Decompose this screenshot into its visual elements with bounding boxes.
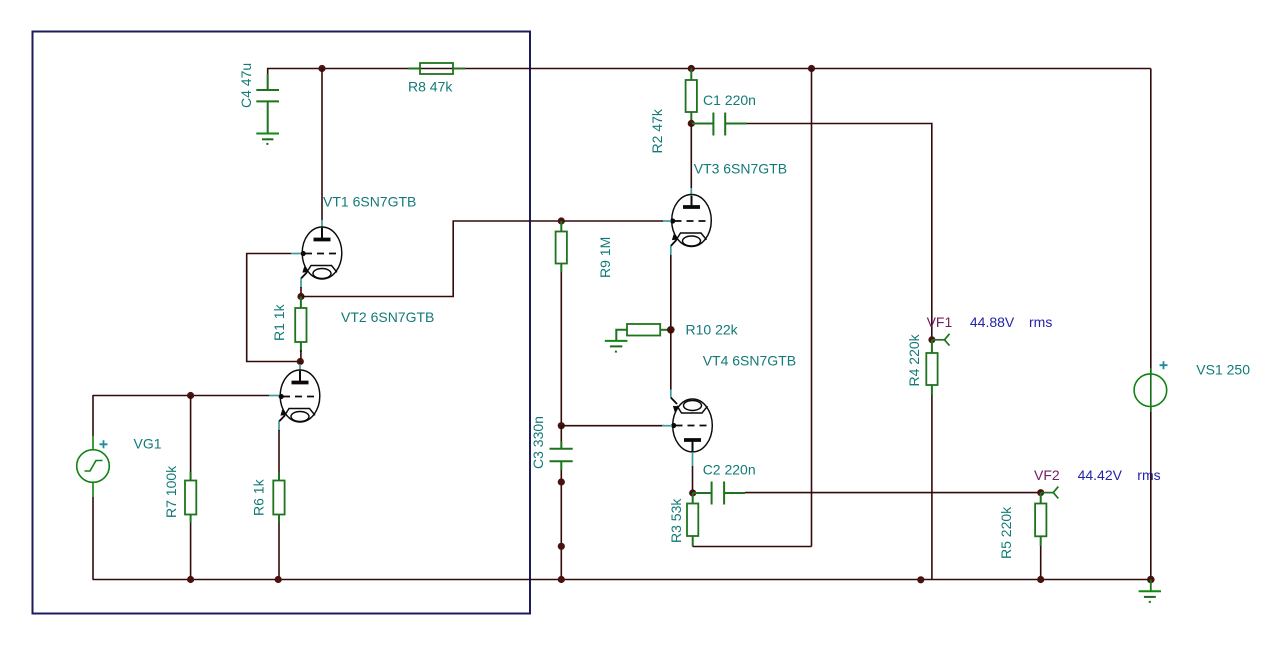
wire: VT1 cathode down to node xyxy=(300,287,302,297)
node: wire joint above rail xyxy=(558,543,565,550)
svg-text:C1 220n: C1 220n xyxy=(703,92,756,108)
svg-text:R2 47k: R2 47k xyxy=(649,108,665,153)
resistor R7 100k xyxy=(190,396,192,481)
resistor R8 47k xyxy=(408,68,465,70)
source VG1 (sine generator) xyxy=(92,395,94,436)
polarity + of VS1 xyxy=(1160,361,1168,369)
wire: VT2 anode lead xyxy=(299,362,301,365)
wire: VS1 lower lead to bottom rail xyxy=(1150,406,1152,580)
wire: VT4 grid wire xyxy=(561,425,664,427)
pin: VT2 anode stub xyxy=(299,364,301,371)
capacitor C2 220n xyxy=(693,492,712,494)
node: R5 bottom on rail xyxy=(1037,576,1044,583)
svg-text:VS1 250: VS1 250 xyxy=(1196,362,1250,378)
wire: R1 bottom to VT2 anode node xyxy=(300,350,302,362)
wire: C2 to VF2 node xyxy=(745,492,1041,494)
svg-text:R10 22k: R10 22k xyxy=(686,322,739,338)
resistor R4 220k xyxy=(931,340,933,353)
wire: R9 bottom down to VT4 grid node xyxy=(560,272,562,426)
svg-text:C3 330n: C3 330n xyxy=(530,416,546,469)
wire: node down to VT4 cathode xyxy=(670,330,672,390)
wire: bottom rail xyxy=(93,579,1151,581)
tube VT2 6SN7GTB (triode) xyxy=(279,370,320,422)
wire: VS1 upper lead xyxy=(1150,69,1152,375)
resistor R3 53k xyxy=(692,493,694,504)
wire: VG1 top to VT2 grid xyxy=(93,395,269,397)
wire: top rail from VT1 anode node to top-right corner xyxy=(322,68,1151,70)
wire: VT3 cathode down to R10 node xyxy=(670,255,672,330)
svg-text:VF1: VF1 xyxy=(927,314,953,330)
node: B+ / VT1 anode junction xyxy=(318,65,325,72)
svg-text:VT1 6SN7GTB: VT1 6SN7GTB xyxy=(323,194,416,210)
wire: long vertical feedback line xyxy=(811,69,813,547)
resistor R6 1k xyxy=(278,430,280,481)
svg-text:R8 47k: R8 47k xyxy=(408,79,453,95)
capacitor C1 220n xyxy=(691,123,713,125)
tube VT1 6SN7GTB (triode) xyxy=(301,227,342,279)
resistor R9 1M xyxy=(560,221,562,272)
source VS1 250 xyxy=(1134,368,1167,412)
svg-text:44.88V: 44.88V xyxy=(970,314,1015,330)
node: VT4 grid junction xyxy=(558,422,565,429)
pin: VT3 cathode stub xyxy=(670,246,672,255)
wire: top rail C4 corner to B+ rail xyxy=(268,69,322,91)
pin: VT4 anode stub xyxy=(692,452,694,466)
svg-text:C4 47u: C4 47u xyxy=(238,63,254,108)
pin: VT3 grid xyxy=(670,218,675,223)
node: R7 top junction xyxy=(187,392,194,399)
svg-text:C2 220n: C2 220n xyxy=(703,462,756,478)
ground (below C4) xyxy=(256,134,279,144)
wire: R4 bottom to rail xyxy=(931,395,933,580)
pin: VT2 grid xyxy=(279,394,284,399)
ground (bottom right) xyxy=(1150,580,1152,592)
wire: VT4 anode lead down xyxy=(692,466,694,493)
pin: VT1 cathode stub xyxy=(300,279,302,289)
wire: VT1 anode lead xyxy=(321,69,323,221)
wire: C3 bottom to rail xyxy=(560,470,562,580)
wire: VT1 grid feedback L-wire xyxy=(247,254,297,362)
tube VT4 6SN7GTB (triode, flipped) xyxy=(671,398,713,453)
pin: VT1 anode stub xyxy=(321,220,323,228)
node: R9 top junction xyxy=(558,217,565,224)
wire: R5 bottom to rail xyxy=(1040,546,1042,580)
node: VT2 anode / R1 bottom xyxy=(297,358,304,365)
pin: VT3 anode stub xyxy=(690,188,692,196)
svg-text:R9 1M: R9 1M xyxy=(597,237,613,278)
wire: R3 bottom to vertical feedback line xyxy=(693,546,812,548)
node: C3 branch on bottom rail xyxy=(558,576,565,583)
pin: VT1 grid xyxy=(301,251,306,256)
svg-text:R3 53k: R3 53k xyxy=(668,498,684,543)
pin: VT4 cathode stub xyxy=(670,390,672,398)
svg-text:rms: rms xyxy=(1137,467,1160,483)
svg-text:VT3 6SN7GTB: VT3 6SN7GTB xyxy=(694,161,787,177)
svg-text:44.42V: 44.42V xyxy=(1078,467,1123,483)
node: wire joint below C3 xyxy=(558,478,565,485)
resistor R1 1k xyxy=(300,297,302,353)
svg-text:R6 1k: R6 1k xyxy=(251,478,267,516)
polarity + of VG1 xyxy=(100,440,108,448)
node: R6 bottom on rail xyxy=(275,576,282,583)
tube VT3 6SN7GTB (triode) xyxy=(671,195,712,247)
svg-text:R7 100k: R7 100k xyxy=(163,465,179,518)
resistor R10 22k xyxy=(660,329,668,331)
wire: C1 to R4 top xyxy=(747,124,932,337)
wire: VT3 anode lead xyxy=(690,124,692,189)
ground (R10) xyxy=(605,341,628,352)
wire: VT1 cathode node to VT3 grid xyxy=(301,221,663,297)
node: R7 bottom on rail xyxy=(187,576,194,583)
resistor R5 220k xyxy=(1040,493,1042,504)
resistor R2 47k xyxy=(690,69,692,124)
node: rail joint near R4 xyxy=(917,576,924,583)
svg-text:VT2 6SN7GTB: VT2 6SN7GTB xyxy=(341,309,434,325)
node: R2 top on rail xyxy=(688,65,695,72)
svg-text:rms: rms xyxy=(1029,314,1052,330)
capacitor C3 330n xyxy=(560,426,562,449)
probe VF1 xyxy=(928,336,935,343)
enclosure box (macro boundary) xyxy=(33,32,531,614)
node: feedback line top on rail xyxy=(808,65,815,72)
svg-text:VF2: VF2 xyxy=(1034,467,1060,483)
pin: VT2 cathode stub xyxy=(278,422,280,432)
node: VT3 cathode / R10 / VT4 cathode xyxy=(667,326,675,334)
svg-text:R5 220k: R5 220k xyxy=(998,506,1014,559)
pin: VT4 grid xyxy=(671,423,676,428)
svg-text:VG1: VG1 xyxy=(134,436,162,452)
node: VT1 cathode / R1 top xyxy=(297,293,304,300)
svg-text:VT4 6SN7GTB: VT4 6SN7GTB xyxy=(703,353,796,369)
node: VT4 anode / C2 / R3 xyxy=(689,489,696,496)
svg-text:R4 220k: R4 220k xyxy=(906,333,922,386)
capacitor C4 47u xyxy=(256,74,279,134)
probe VF2 xyxy=(1037,489,1044,496)
node: R2 bottom / C1 / VT3 anode xyxy=(688,120,695,127)
svg-text:R1 1k: R1 1k xyxy=(271,303,287,341)
node: ground junction on rail xyxy=(1147,576,1155,584)
